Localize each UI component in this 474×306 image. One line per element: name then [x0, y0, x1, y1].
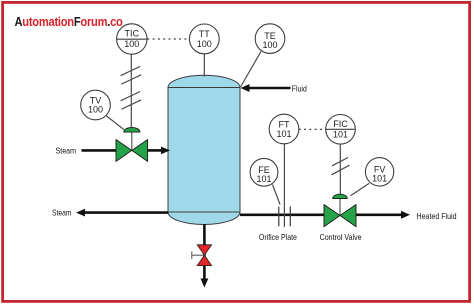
drain valve handle — [192, 254, 205, 256]
svg-text:101: 101 — [333, 129, 348, 139]
heated fluid outlet pipe — [240, 214, 325, 217]
svg-text:Steam: Steam — [56, 146, 77, 155]
arrowhead fluid into tank — [241, 84, 250, 92]
steam outlet pipe (bottom left) — [84, 211, 168, 214]
signal line TT-100 to tank — [203, 54, 205, 77]
tank bottom dome — [168, 212, 240, 224]
orifice plate flange left — [278, 207, 280, 227]
tank bottom seam — [168, 211, 240, 213]
svg-text:AutomationForum.co: AutomationForum.co — [15, 14, 123, 29]
instrument bubble FV 101 — [365, 158, 393, 186]
arrowhead into tank — [161, 147, 170, 155]
svg-text:100: 100 — [262, 40, 277, 50]
instrument bubble TV 100 — [81, 90, 111, 120]
svg-text:101: 101 — [372, 174, 387, 184]
steam valve actuator dome — [124, 127, 140, 132]
signal line TE-100 to tank nozzle — [241, 52, 262, 88]
tank top seam — [168, 87, 240, 89]
orifice plate flange right — [289, 207, 291, 227]
svg-text:Control Valve: Control Valve — [320, 233, 362, 242]
fluid inlet pipe (top right) — [248, 87, 291, 90]
instrument bubble TE 100 — [255, 24, 285, 54]
svg-text:Orifice Plate: Orifice Plate — [259, 233, 297, 242]
svg-text:Fluid: Fluid — [292, 84, 307, 93]
instrument bubble FT 101 — [269, 114, 299, 144]
svg-text:TT: TT — [199, 29, 210, 39]
impulse line FT-101 to orifice — [283, 144, 285, 227]
drain pipe from tank bottom — [203, 224, 206, 280]
svg-text:100: 100 — [197, 39, 212, 49]
signal line FIC-101 down to control valve — [339, 144, 341, 194]
pipe after control valve — [356, 214, 403, 217]
dashed signal TIC-100 to TT-100 — [147, 38, 189, 40]
signal line FV-101 tail to control valve dome — [351, 183, 370, 195]
arrowhead steam outlet — [76, 209, 85, 217]
control valve actuator dome — [333, 194, 348, 198]
svg-text:101: 101 — [276, 129, 291, 139]
svg-text:100: 100 — [124, 39, 139, 49]
steam control valve TV-100 (green) — [116, 140, 132, 162]
steam valve stem — [131, 132, 133, 150]
pipe from steam valve into tank — [148, 149, 163, 152]
svg-text:FT: FT — [279, 119, 290, 129]
arrowhead heated fluid — [401, 211, 410, 219]
control valve FV-101 (green) — [324, 205, 340, 227]
pneumatic slashes on FIC line — [332, 158, 348, 166]
svg-text:Steam: Steam — [52, 209, 72, 218]
steam inlet pipe — [82, 149, 117, 152]
instrument bubble FIC 101 — [326, 115, 356, 145]
svg-text:100: 100 — [88, 105, 103, 115]
svg-text:TIC: TIC — [125, 29, 140, 39]
svg-text:Heated Fluid: Heated Fluid — [417, 212, 457, 221]
instrument bubble FE 101 — [250, 158, 278, 186]
dashed signal FT-101 to FIC-101 — [299, 128, 326, 130]
svg-text:FIC: FIC — [333, 119, 348, 129]
control valve stem — [339, 199, 341, 215]
tank top dome — [168, 75, 240, 87]
instrument bubble TIC 100 — [117, 24, 147, 54]
drain valve V-1 (red) — [197, 245, 211, 255]
signal line TIC-100 down to steam valve — [130, 54, 132, 128]
signal line TV-100 to valve dome — [106, 116, 124, 130]
signal line FE-101 tail to orifice — [273, 185, 281, 205]
instrument bubble TT 100 — [189, 24, 219, 54]
svg-text:101: 101 — [256, 174, 271, 184]
pneumatic slashes on TIC line — [121, 66, 141, 75]
tank body T-100 — [168, 88, 240, 213]
arrowhead drain down — [201, 279, 209, 288]
